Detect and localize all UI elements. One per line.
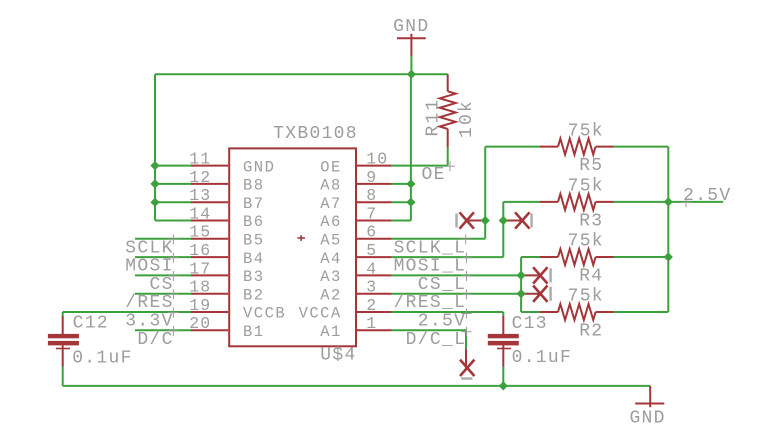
svg-text:2.5V: 2.5V <box>683 186 731 206</box>
svg-text:A1: A1 <box>320 323 342 341</box>
resistor R2 75k <box>521 287 668 342</box>
resistor R3 75k <box>503 177 668 232</box>
wire /RES_L net <box>392 293 521 295</box>
node junction CS_L row <box>517 271 526 280</box>
svg-text:75k: 75k <box>568 232 604 252</box>
svg-text:16: 16 <box>189 241 211 260</box>
svg-text:13: 13 <box>189 186 211 205</box>
pin 20 (B1) left stub <box>189 314 264 341</box>
pin 15 (B5) left stub <box>189 223 264 250</box>
pin 4 (A3) right stub <box>320 259 392 286</box>
svg-text:R4: R4 <box>579 267 603 287</box>
wire D/C_L net <box>392 330 466 349</box>
svg-text:OE: OE <box>421 165 445 185</box>
svg-text:GND: GND <box>629 409 665 429</box>
svg-text:CS_L: CS_L <box>418 275 466 295</box>
ground GND (bottom right) <box>629 386 665 429</box>
svg-text:12: 12 <box>189 168 211 187</box>
label D/C_L <box>406 327 472 350</box>
node junction pin 13 <box>150 198 159 207</box>
node junction SCLK_L vertical <box>481 216 490 225</box>
label MOSI_L <box>394 253 472 277</box>
svg-text:SCLK_L: SCLK_L <box>394 238 467 258</box>
ground GND (top) <box>393 17 429 74</box>
svg-text:0.1uF: 0.1uF <box>512 348 573 368</box>
wire MOSI net <box>135 256 191 258</box>
label SCLK <box>125 234 178 258</box>
label /RES <box>125 289 178 313</box>
svg-text:R11: R11 <box>423 99 443 137</box>
svg-text:U$4: U$4 <box>320 345 356 365</box>
svg-text:7: 7 <box>366 204 377 223</box>
node GND top junction <box>407 70 416 79</box>
svg-text:A2: A2 <box>320 286 342 304</box>
label /RES_L <box>394 289 472 313</box>
svg-text:CS: CS <box>149 275 173 295</box>
svg-text:75k: 75k <box>568 177 604 197</box>
wire pin 14 net segment <box>155 220 191 222</box>
wire pin 11 net segment <box>155 165 191 167</box>
node junction C13 to GND wire <box>499 381 508 390</box>
pin 9 (A8) right stub <box>320 168 392 195</box>
svg-text:A4: A4 <box>320 250 342 268</box>
wire OE net pin10 to R11 <box>392 165 448 167</box>
svg-text:A6: A6 <box>320 213 342 231</box>
svg-text:SCLK: SCLK <box>125 238 173 258</box>
testpoint pin crossed (below D/C_L) <box>460 349 474 378</box>
svg-text:0.1uF: 0.1uF <box>72 349 133 369</box>
svg-text:/RES: /RES <box>125 293 173 313</box>
svg-text:R5: R5 <box>579 156 603 176</box>
wire pin 8 net <box>392 201 411 203</box>
pin 6 (A5) right stub <box>320 223 392 250</box>
IC U$4 origin cross <box>297 235 305 241</box>
pin 14 (B6) left stub <box>189 204 264 231</box>
svg-text:3: 3 <box>366 278 377 297</box>
svg-text:10: 10 <box>366 150 388 169</box>
label 3.3V <box>125 308 178 332</box>
wire SCLK net <box>135 238 191 240</box>
node junction MOSI_L vertical <box>499 216 508 225</box>
label 2.5V pin2 <box>418 309 472 332</box>
svg-text:MOSI_L: MOSI_L <box>394 257 467 277</box>
node junction R4/2.5V <box>664 252 673 261</box>
wire 2.5V right vertical <box>667 147 669 312</box>
pin 19 (VCCB) left stub <box>189 296 286 323</box>
node junction /RES_L row <box>517 289 526 298</box>
label SCLK_L <box>394 234 471 258</box>
svg-text:2: 2 <box>366 296 377 315</box>
wire /RES net <box>135 293 191 295</box>
svg-text:B1: B1 <box>243 323 265 341</box>
svg-text:1: 1 <box>366 314 377 333</box>
capacitor C12 <box>48 312 133 386</box>
resistor R4 75k <box>521 232 668 287</box>
pin 2 (VCCA) right stub <box>299 296 392 323</box>
testpoint pin crossed right on MOSI_L vertical <box>503 212 531 228</box>
pin 5 (A4) right stub <box>320 241 392 268</box>
svg-text:10k: 10k <box>457 100 477 138</box>
svg-text:B2: B2 <box>243 286 265 304</box>
svg-text:MOSI: MOSI <box>125 257 173 277</box>
wire 2.5V label stub <box>668 201 723 203</box>
wire pin 9 net <box>392 183 411 185</box>
pin 18 (B2) left stub <box>189 278 264 305</box>
wire GND net right vertical <box>410 74 412 220</box>
svg-text:5: 5 <box>366 241 377 260</box>
svg-text:B6: B6 <box>243 213 265 231</box>
wire pin 13 net segment <box>155 201 191 203</box>
wire GND bottom horizontal <box>63 385 651 387</box>
node junction pin 8 <box>406 198 415 207</box>
pin 1 (A1) right stub <box>320 314 392 341</box>
svg-text:17: 17 <box>189 259 211 278</box>
svg-text:75k: 75k <box>568 287 604 307</box>
svg-text:19: 19 <box>189 296 211 315</box>
svg-text:4: 4 <box>366 259 377 278</box>
svg-text:A8: A8 <box>320 177 342 195</box>
testpoint pin crossed CS_L row <box>521 267 551 283</box>
label MOSI <box>125 253 178 277</box>
wire 3.3V net horizontal <box>63 311 191 313</box>
wire MOSI_L net <box>392 202 504 257</box>
svg-text:3.3V: 3.3V <box>125 312 173 332</box>
wire CS net <box>135 274 191 276</box>
svg-text:B3: B3 <box>243 268 265 286</box>
svg-text:GND: GND <box>393 17 429 37</box>
node junction R3/2.5V <box>664 197 673 206</box>
wire 2.5V net pin2 to C13 <box>392 311 504 313</box>
wire D/C net <box>135 329 191 331</box>
svg-text:B8: B8 <box>243 177 265 195</box>
node junction pin 11 <box>150 161 159 170</box>
IC U$4 TXB0108 body <box>229 124 358 365</box>
svg-text:8: 8 <box>366 186 377 205</box>
testpoint pin crossed /RES_L row <box>521 286 551 302</box>
svg-text:R3: R3 <box>579 211 603 231</box>
node junction pin 9 <box>406 179 415 188</box>
svg-text:GND: GND <box>243 158 275 176</box>
pin 11 (GND) left stub <box>189 150 275 177</box>
svg-text:18: 18 <box>189 278 211 297</box>
svg-text:15: 15 <box>189 223 211 242</box>
svg-text:6: 6 <box>366 223 377 242</box>
svg-text:14: 14 <box>189 204 211 223</box>
pin 8 (A7) right stub <box>320 186 392 213</box>
wire GND net left vertical <box>154 74 156 220</box>
pin 17 (B3) left stub <box>189 259 264 286</box>
label CS_L <box>418 271 472 295</box>
svg-text:/RES_L: /RES_L <box>394 293 467 313</box>
node junction pin 12 <box>150 179 159 188</box>
svg-text:20: 20 <box>189 314 211 333</box>
svg-text:TXB0108: TXB0108 <box>273 124 358 144</box>
svg-text:B4: B4 <box>243 250 265 268</box>
wire GND net top horizontal <box>155 73 448 75</box>
svg-text:2.5V: 2.5V <box>418 312 466 332</box>
label CS <box>149 271 178 295</box>
label OE <box>421 161 455 185</box>
wire pin 12 net segment <box>155 183 191 185</box>
wire R4-R2 left vertical <box>520 257 522 312</box>
pin 3 (A2) right stub <box>320 278 392 305</box>
resistor R11 10k <box>423 74 477 165</box>
svg-text:A7: A7 <box>320 195 342 213</box>
wire CS_L net <box>392 274 521 276</box>
svg-text:A5: A5 <box>320 232 342 250</box>
pin 13 (B7) left stub <box>189 186 264 213</box>
svg-text:9: 9 <box>366 168 377 187</box>
svg-text:R2: R2 <box>579 322 603 342</box>
svg-text:D/C_L: D/C_L <box>406 330 467 350</box>
svg-text:VCCB: VCCB <box>243 305 286 323</box>
pin 7 (A6) right stub <box>320 204 392 231</box>
svg-text:B7: B7 <box>243 195 265 213</box>
label D/C <box>137 326 178 350</box>
testpoint pin crossed left of SCLK_L vertical <box>457 212 485 228</box>
svg-text:D/C: D/C <box>137 330 173 350</box>
svg-text:OE: OE <box>320 158 342 176</box>
wire SCLK_L net <box>392 147 485 239</box>
svg-text:VCCA: VCCA <box>299 305 342 323</box>
pin 16 (B4) left stub <box>189 241 264 268</box>
wire pin 7 net <box>392 220 411 222</box>
capacitor C13 <box>488 312 572 386</box>
svg-text:C13: C13 <box>512 314 548 334</box>
pin 12 (B8) left stub <box>189 168 264 195</box>
svg-text:75k: 75k <box>568 121 604 141</box>
pin 10 (OE) right stub <box>320 150 392 177</box>
svg-text:A3: A3 <box>320 268 342 286</box>
svg-text:C12: C12 <box>73 314 109 334</box>
svg-text:11: 11 <box>189 150 211 169</box>
svg-text:B5: B5 <box>243 232 265 250</box>
resistor R5 75k <box>485 121 668 176</box>
label 2.5V right <box>681 186 731 207</box>
